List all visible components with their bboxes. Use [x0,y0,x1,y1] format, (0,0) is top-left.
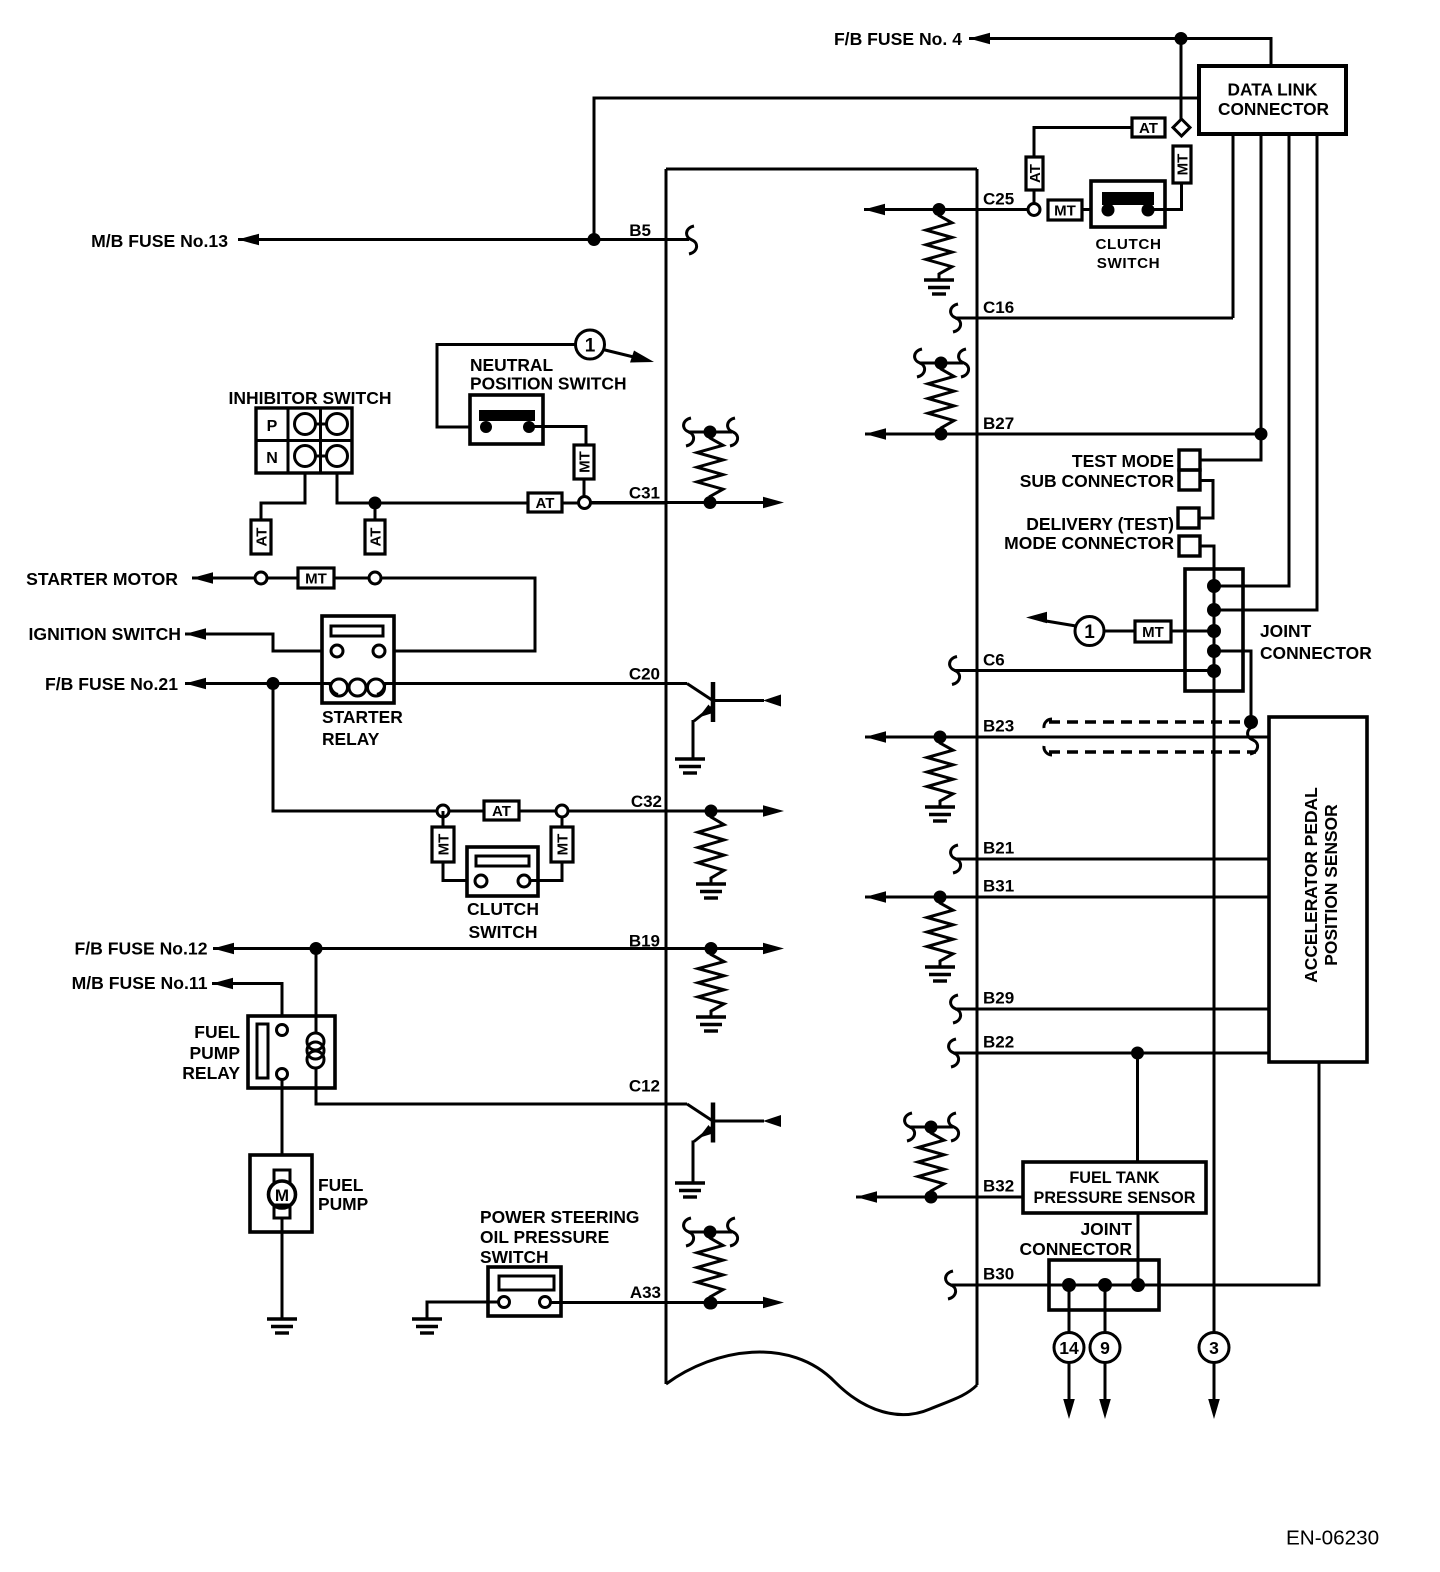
wire F/B FUSE No.4 to data link connector [969,39,1271,67]
wire C12 inside ECU [666,1103,687,1106]
shield left curl bottom [1044,746,1052,755]
svg-text:A33: A33 [630,1283,661,1302]
diamond connector pin [1173,119,1190,136]
svg-text:SWITCH: SWITCH [480,1247,549,1267]
svg-text:C32: C32 [631,792,662,811]
svg-text:IGNITION SWITCH: IGNITION SWITCH [29,624,181,644]
svg-text:C16: C16 [983,298,1014,317]
svg-text:F/B FUSE No. 4: F/B FUSE No. 4 [834,29,962,49]
svg-text:B30: B30 [983,1265,1014,1284]
fuel pump relay top contact [277,1025,288,1036]
inhibitor switch column divider 2 [319,408,322,473]
connector circle C31 [579,497,591,509]
svg-text:CLUTCH: CLUTCH [1095,236,1161,253]
wire starter motor to relay contact [381,578,535,651]
pull-up motif A33 [688,1231,732,1234]
svg-text:C31: C31 [629,484,660,503]
transistor Q1 bar [711,682,716,722]
MT box (joint connector) [1135,621,1171,642]
svg-text:MT: MT [1174,154,1191,176]
AT box (C32 row) [484,801,519,820]
svg-text:P: P [267,418,278,435]
arrow B31 (to other page) [865,891,886,903]
power steering switch box [488,1267,561,1316]
wire starter motor [192,577,255,580]
clutch switch (lower) right contact [518,875,530,887]
wire joint node 4 to shield [1214,651,1251,722]
wire C25 [864,208,1028,211]
MT box (clutch right) [551,827,573,862]
joint connector node 4 [1207,644,1221,658]
svg-text:M: M [275,1186,289,1205]
svg-text:B27: B27 [983,414,1014,433]
junction node B23 [934,731,947,744]
starter relay right contact [373,645,385,657]
DLC pin wire 1 [1232,134,1235,318]
svg-text:AT: AT [492,803,511,820]
ground (Q2 emitter) [675,1181,705,1184]
wire B22 to fuel tank pressure sensor [1136,1053,1139,1162]
connector circle starter right [369,572,381,584]
wire power steering to ground [427,1302,499,1319]
inhibitor switch row divider [256,439,352,442]
svg-text:PUMP: PUMP [189,1043,240,1063]
wire B19 [213,947,711,950]
svg-text:MT: MT [554,834,571,856]
AT box (vertical, C25 branch) [1026,157,1043,190]
joint connector node 1 [1207,579,1221,593]
fuel pump motor circle [269,1181,296,1208]
starter relay coil [330,684,338,695]
junction node B19 right [705,942,718,955]
fuel tank pressure sensor box [1023,1162,1206,1213]
svg-text:M/B FUSE No.11: M/B FUSE No.11 [72,973,208,993]
svg-text:C20: C20 [629,665,660,684]
circle 1 symbol (top) [576,330,605,359]
svg-text:B29: B29 [983,989,1014,1008]
pull-up motif B27 [919,362,963,365]
DLC pin wire 3 [1214,134,1289,586]
wire node1 to circled 14 [1068,1285,1071,1333]
delivery mode connector square 3 [1178,508,1199,528]
svg-text:M/B FUSE No.13: M/B FUSE No.13 [91,231,228,251]
wire break B21 [951,845,961,873]
svg-text:RELAY: RELAY [182,1063,240,1083]
svg-text:C6: C6 [983,651,1005,670]
fuel pump relay bar [257,1024,268,1078]
svg-text:EN-06230: EN-06230 [1286,1527,1379,1550]
test mode sub connector square 1 [1179,450,1200,470]
joint connector node 5 [1207,664,1221,678]
joint connector bus line [1213,569,1216,1333]
wire A33 internal arrow [711,1301,763,1304]
wire B29 [955,1008,1269,1011]
joint connector node 2 [1207,603,1221,617]
wire junction to diamond connector [1180,39,1183,120]
wire node2 to circled 9 [1104,1285,1107,1333]
wire C32 internal arrow [711,810,763,813]
arrow to F/B FUSE No.12 [213,943,234,955]
svg-text:POSITION SWITCH: POSITION SWITCH [470,374,627,394]
svg-text:AT: AT [367,528,384,547]
wire B27 [865,433,1261,436]
wire C31 into ECU [590,501,710,504]
svg-text:MT: MT [435,834,452,856]
junction node C25 [933,203,946,216]
ground (B31 resistor) [925,965,955,968]
circle 14 symbol [1054,1333,1084,1363]
svg-text:OIL PRESSURE: OIL PRESSURE [480,1227,609,1247]
ground (B19 resistor) [696,1015,726,1018]
fuel pump box [250,1155,312,1232]
power steering right contact [540,1297,551,1308]
svg-text:1: 1 [1084,622,1095,643]
AT box (inhibitor left) [251,520,271,554]
power steering switch bar [499,1276,554,1290]
wire AT vertical box to C25 connector circle [1033,190,1036,204]
wire A33 [551,1301,712,1304]
ground (C25 resistor) [924,278,954,281]
svg-text:MT: MT [576,451,593,473]
AT box (top, horizontal) [1132,118,1165,137]
starter relay left contact [331,645,343,657]
svg-text:STARTER: STARTER [322,707,403,727]
ground (power steering) [412,1317,442,1320]
arrow to F/B FUSE No. 4 [969,33,990,45]
arrow B32 (to other page) [856,1191,877,1203]
wire coil to C12 [316,1067,666,1104]
wire B23 [865,736,1269,739]
wire clutch right contact to MT2 [530,862,562,881]
pull-up motif C31 [688,431,732,434]
svg-text:AT: AT [1027,164,1044,183]
svg-text:B23: B23 [983,717,1014,736]
arrow C25 (to other page) [864,204,885,216]
fuel pump relay coil [307,1033,324,1050]
AT box (C31 row) [528,493,562,512]
svg-text:C25: C25 [983,190,1014,209]
svg-text:CONNECTOR: CONNECTOR [1020,1239,1133,1259]
junction node C32 [705,805,718,818]
junction node on F/B FUSE No.4 wire [1175,32,1188,45]
svg-text:POSITION SENSOR: POSITION SENSOR [1321,804,1341,966]
wire inhibitor junction down to AT box 2 [374,503,377,520]
joint connector 2 node 3 [1131,1278,1145,1292]
joint connector 2 node 1 [1062,1278,1076,1292]
wire DLC pin2 to test square 1 [1200,434,1261,460]
transistor Q1 base [687,684,712,701]
pull-up motif B32 [909,1126,953,1129]
wire AT to circle [519,810,556,813]
wire B19 junction down to coil [315,949,318,1035]
svg-text:MT: MT [1142,624,1164,641]
ground (Q1 emitter) [675,757,705,760]
power steering left contact [499,1297,510,1308]
wire break C16 [951,304,961,332]
inhibitor N contact right [327,446,348,467]
wire neutral switch to MT box [529,427,586,446]
svg-text:SUB CONNECTOR: SUB CONNECTOR [1020,471,1175,491]
arrow from circled 1 (top) [603,350,640,359]
svg-text:PUMP: PUMP [318,1194,368,1214]
wire circled1 to neutral switch [437,345,575,428]
shield node [1244,715,1258,729]
inhibitor P contact right [327,414,348,435]
wire B31 [865,896,1269,899]
connector circle starter left [255,572,267,584]
joint connector node 3 [1207,624,1221,638]
shield dashed bottom [1049,750,1256,753]
ground (C32 resistor) [696,882,726,885]
wire B21 [955,858,1269,861]
junction node A33 [705,1297,718,1310]
wire circled 14 down arrow [1068,1363,1071,1401]
svg-text:FUEL: FUEL [194,1022,240,1042]
DLC pin wire 4 [1214,134,1317,610]
MT box (neutral switch) [574,445,594,479]
transistor Q2 base [687,1104,712,1121]
starter relay box [322,616,394,703]
wire MT2 up to circle [561,817,564,827]
shield break mark right [1248,726,1258,754]
svg-text:B5: B5 [629,221,651,240]
transistor Q2 bar [711,1103,716,1143]
junction node B19 left [310,942,323,955]
resistor B31 pull-down [927,897,953,967]
wire break B5 [687,226,697,254]
svg-text:1: 1 [585,335,596,356]
arrow B23 (to other page) [865,731,886,743]
svg-text:F/B FUSE No.12: F/B FUSE No.12 [75,939,208,959]
AT box (inhibitor right) [365,520,385,554]
wire B22 [953,1052,1269,1055]
DLC pin wire 2 [1260,134,1263,460]
wire C31 internal arrow [710,501,763,504]
wire MT box to C31 circle [583,479,586,497]
neutral position switch box [470,395,543,444]
svg-text:PRESSURE SENSOR: PRESSURE SENSOR [1034,1189,1196,1207]
junction node B27 at DLC pin 2 [1255,428,1268,441]
wire MT box to clutch switch (upper) [1082,208,1108,211]
svg-text:MT: MT [1054,202,1076,219]
clutch switch (lower) bar [476,856,529,866]
resistor C25 pull-down [926,210,952,281]
junction node B31 [934,891,947,904]
svg-text:MT: MT [305,570,327,587]
clutch switch (lower) box [467,847,538,896]
arrow to M/B FUSE No.11 [212,978,233,990]
wire ignition switch to relay [185,634,331,651]
fuel pump relay box [248,1016,335,1088]
arrow to STARTER MOTOR [192,572,213,584]
resistor C32 [698,811,724,884]
wire test square 2 to delivery square 1 [1199,481,1213,519]
svg-text:TEST MODE: TEST MODE [1072,451,1174,471]
transistor Q2 emitter [694,1127,713,1142]
svg-text:CLUTCH: CLUTCH [467,899,539,919]
wire M/B FUSE No.11 to relay [212,984,282,1026]
wire AT box to AT vertical box [1034,128,1132,158]
wire clutch MT1 drop [442,811,445,827]
shield dashed top [1049,720,1256,723]
clutch switch (upper) box [1091,181,1165,227]
wire B5 [238,238,689,241]
ground (B23 resistor) [925,805,955,808]
arrow to F/B FUSE No.21 [185,678,206,690]
clutch switch (upper) contact bar [1102,192,1154,205]
MT box (starter motor row) [298,568,334,588]
junction node F/B FUSE No.21 [267,677,280,690]
clutch switch (upper) left contact [1102,204,1115,217]
wire C32 from F/B21 junction [273,684,437,812]
transistor Q1 collector [714,699,764,702]
wire B5 branch to data link connector [594,98,1199,240]
svg-text:JOINT: JOINT [1080,1219,1132,1239]
wire MT1 to clutch contact [443,862,475,881]
test mode sub connector square 2 [1179,470,1200,490]
ECU case left edge [665,169,668,1384]
svg-text:STARTER MOTOR: STARTER MOTOR [26,569,178,589]
circle 1 symbol [1075,617,1104,646]
wire B19 internal arrow [711,947,763,950]
connector circle C32 right [556,805,568,817]
wire C20 (F/B FUSE No.21 to ECU) [185,682,331,685]
svg-text:14: 14 [1059,1338,1079,1358]
svg-text:CONNECTOR: CONNECTOR [1218,99,1330,119]
svg-text:AT: AT [253,528,270,547]
clutch switch (upper) right contact [1142,204,1155,217]
ECU case top edge [666,168,977,171]
circle 3 symbol [1199,1333,1229,1363]
wire C32 to ECU [568,810,711,813]
transistor Q2 collector [714,1120,764,1123]
wire MT to circle [334,577,369,580]
svg-text:DATA LINK: DATA LINK [1228,80,1318,100]
fuel pump relay bottom contact [277,1069,288,1080]
resistor B19 [698,949,724,1018]
junction node inhibitor [369,497,382,510]
shield left curl top [1044,719,1052,728]
svg-text:FUEL TANK: FUEL TANK [1069,1169,1160,1187]
svg-text:POWER STEERING: POWER STEERING [480,1207,639,1227]
neutral switch left contact [480,421,492,433]
arrow to IGNITION SWITCH [185,628,206,640]
wire B32 [856,1196,1023,1199]
inhibitor N contact left [295,446,316,467]
junction node B5 [588,233,601,246]
wire B30 [950,1062,1319,1285]
ECU case right edge [976,169,979,1385]
MT box (horizontal, C25 row) [1048,200,1082,220]
wire break B30 [946,1271,956,1299]
circle 9 symbol [1090,1333,1120,1363]
wire circled 3 down arrow [1213,1363,1216,1401]
svg-text:AT: AT [1139,120,1158,137]
connector circle C32 left [437,805,449,817]
svg-text:JOINT: JOINT [1260,621,1312,641]
inhibitor switch box [256,408,352,473]
MT box (vertical, below diamond) [1173,146,1191,183]
svg-text:B21: B21 [983,839,1014,858]
wire right contact to MT [1148,208,1182,211]
svg-text:MODE CONNECTOR: MODE CONNECTOR [1004,533,1174,553]
svg-text:9: 9 [1100,1338,1110,1358]
arrow to M/B FUSE No.13 [238,234,259,246]
wire inhibitor left column to AT box [261,473,305,520]
joint connector box [1185,569,1243,691]
svg-text:SWITCH: SWITCH [1097,255,1161,272]
svg-text:3: 3 [1209,1338,1219,1358]
wire circle to AT box [449,810,484,813]
svg-text:B22: B22 [983,1033,1014,1052]
arrow from circled 1 [1043,621,1076,627]
wire C6 to joint node 5 [954,669,1214,672]
wire break B29 [951,995,961,1023]
wire break B22 [949,1039,959,1067]
resistor B23 pull-down [927,737,953,807]
svg-text:ACCELERATOR PEDAL: ACCELERATOR PEDAL [1301,787,1321,983]
fuel pump upper terminal [274,1170,290,1184]
fuel pump lower terminal [274,1205,290,1218]
svg-text:F/B FUSE No.21: F/B FUSE No.21 [45,674,178,694]
neutral switch right contact [523,421,535,433]
wire inhibitor right column [337,473,666,503]
wire MT box to joint node 3 [1171,630,1214,633]
wire fuel pump to ground [281,1218,284,1319]
wire C16 to DLC pin 1 [955,317,1233,320]
wire relay to fuel pump [281,1080,284,1171]
wire to MT box [267,577,298,580]
svg-text:AT: AT [536,495,555,512]
connector circle C25 [1028,204,1040,216]
ECU case wavy bottom edge [666,1352,977,1415]
joint connector 2 box [1049,1260,1159,1310]
ground (fuel pump) [267,1317,297,1320]
svg-text:DELIVERY (TEST): DELIVERY (TEST) [1026,514,1174,534]
arrow B27 (to other page) [865,428,886,440]
inhibitor N contact link [305,455,337,458]
svg-text:RELAY: RELAY [322,729,380,749]
wire MT box to clutch switch [1165,183,1182,210]
wire delivery square 4 to joint connector [1200,546,1214,569]
inhibitor switch column divider 1 [287,408,290,473]
MT box (clutch left) [432,827,454,862]
starter relay contact bar [331,626,383,636]
joint connector 2 node 2 [1098,1278,1112,1292]
wire break C6 [950,657,960,685]
svg-text:CONNECTOR: CONNECTOR [1260,643,1372,663]
wire circled 9 down arrow [1104,1363,1107,1401]
transistor Q1 emitter [694,706,713,721]
data link connector box [1199,66,1346,134]
svg-text:N: N [266,450,278,467]
neutral switch contact bar [479,410,535,421]
inhibitor P contact link [305,423,337,426]
inhibitor P contact left [295,414,316,435]
delivery mode connector square 4 [1179,536,1200,556]
wire circled1 to MT box [1104,630,1135,633]
wire fuel tank sensor to joint connector 2 [1137,1213,1140,1285]
svg-text:B32: B32 [983,1177,1014,1196]
svg-text:FUEL: FUEL [318,1175,364,1195]
clutch switch (lower) left contact [475,875,487,887]
svg-text:C12: C12 [629,1077,660,1096]
svg-text:NEUTRAL: NEUTRAL [470,355,553,375]
junction node B22 [1131,1047,1144,1060]
accelerator pedal position sensor box [1269,717,1367,1062]
svg-text:B31: B31 [983,877,1014,896]
svg-text:INHIBITOR SWITCH: INHIBITOR SWITCH [228,388,391,408]
